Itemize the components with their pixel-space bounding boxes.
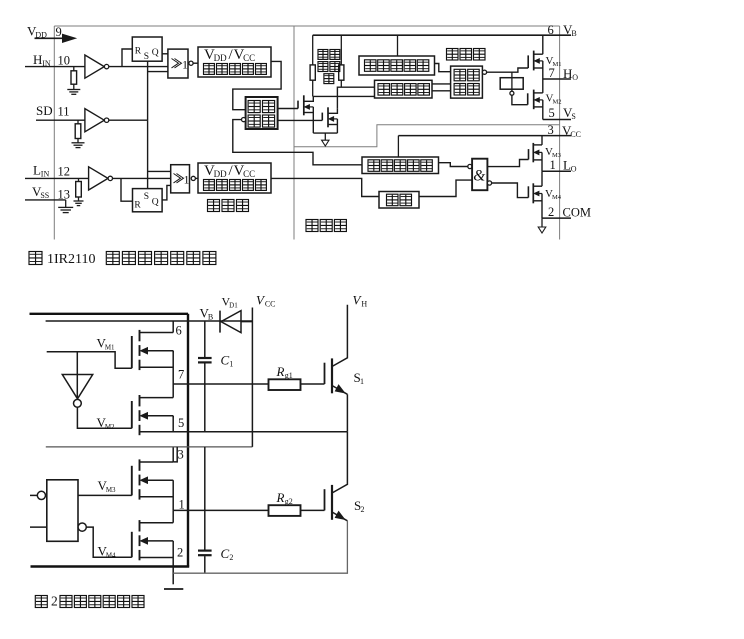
MOSFET VM1 channel [533, 51, 535, 71]
svg-text:1: 1 [229, 360, 233, 369]
G3 ampersand label [473, 168, 485, 185]
MOSFET VM4 gate bar [527, 186, 529, 197]
wire VS/pin5 net [140, 431, 348, 433]
wire FF2 Q output to OR gate G2 [162, 185, 171, 200]
wire LO rail [542, 170, 571, 172]
diode VD1 [220, 311, 252, 333]
RG1 output bubble [510, 91, 514, 95]
FF2 Q label [152, 198, 159, 208]
U5 output bubble [78, 523, 86, 531]
svg-text:H: H [563, 66, 572, 81]
resistor on HIN input [71, 71, 77, 84]
totem MOSFET QT1 substrate arrow [305, 105, 314, 110]
pin 3 VCC label [562, 123, 581, 139]
FF1 Q label [152, 48, 159, 58]
inverter U2 on SD [85, 109, 109, 132]
MOSFET Q2 (VM2 switch) drain arm [140, 397, 174, 399]
pin 2 number [548, 205, 554, 219]
MOSFET VM4 channel [532, 183, 534, 203]
VM2 label (fig2) [97, 415, 116, 431]
MOSFET Q2 (VM2 switch) substrate arrow [141, 413, 174, 419]
capacitor C2 bottom lead [204, 556, 206, 573]
wire LS2 output to delay box [271, 178, 379, 196]
MOSFET VM2 gate bar [527, 93, 529, 104]
svg-text:O: O [571, 165, 577, 174]
inverter U3 on LIN [89, 167, 113, 190]
VD1 label [222, 295, 239, 310]
LL1 label (luo ji feng suo) [454, 69, 479, 95]
wire Q4 (VM4 switch) drain [172, 510, 174, 522]
MOSFET Q4 (VM4 switch) source arm [140, 557, 174, 559]
wire through RG1 [511, 72, 513, 91]
IGBT S1 emitter [332, 385, 347, 394]
figure 1 IC outline top border [54, 25, 559, 27]
wire VCC supply vertical [251, 308, 253, 447]
wire Q3 source to pin1 node [172, 480, 174, 510]
pin 9 number [56, 25, 62, 39]
svg-text:Q: Q [152, 48, 159, 58]
MOSFET VM1 gate bar [527, 55, 529, 68]
svg-text:1: 1 [184, 173, 190, 187]
MOSFET Q1 (VM1 switch) source arm [140, 366, 174, 368]
PF1 label (mai chong lv bo) [378, 84, 429, 96]
pin 6 number (fig2) [176, 324, 182, 338]
wire S1 emitter to VS node [346, 394, 348, 431]
pin 10 number [58, 54, 71, 68]
svg-text:1IR2110: 1IR2110 [47, 252, 95, 267]
wire VCC/pin3 net [46, 446, 253, 448]
wire Q4 source to COM/ground [172, 541, 174, 584]
IGBT S1 collector [332, 305, 347, 367]
wire LIN input [25, 177, 89, 179]
DL1 label (yan shi) [387, 194, 412, 206]
pin 12 number [58, 165, 71, 179]
wire VM2 source to VS rail [542, 100, 544, 120]
wire VB net [46, 320, 253, 322]
svg-text:1: 1 [360, 377, 364, 386]
wire U5 output B to VM4 gate [86, 527, 132, 557]
pin 6 VB label [563, 22, 577, 38]
MOSFET VM4 substrate arrow [534, 191, 542, 196]
figure 1 upper/lower channel boundary [294, 125, 560, 147]
undervoltage detector box UV1 (upper) [359, 56, 435, 75]
svg-text:1: 1 [182, 58, 188, 72]
pin 12 LIN label [33, 163, 49, 179]
MOSFET Q1 (VM1 switch) gate bar [131, 336, 133, 368]
wire HO rail [543, 78, 571, 80]
NAND gate U5 input wire B [30, 526, 47, 528]
svg-text:6: 6 [548, 23, 554, 37]
pin 3 number (fig2) [178, 448, 184, 462]
wire Q3 (VM3 switch) drain [172, 447, 174, 462]
level shifter box LS2 (VDD/VCC) [198, 163, 271, 193]
NAND gate U5 input wire A [30, 494, 37, 496]
svg-text:g2: g2 [285, 497, 293, 506]
wire R input tap of lower RS latch [121, 178, 133, 201]
RS latch FF2 (lower) [133, 189, 163, 212]
wire G2 output to level shifter LS2 [195, 177, 198, 179]
IGBT S1 body bar [331, 358, 333, 393]
totem MOSFET QT2 source arm [328, 124, 337, 126]
AND gate G3 input bubble [468, 164, 472, 168]
svg-text:COM: COM [563, 206, 591, 220]
svg-text:2: 2 [229, 553, 233, 562]
wire SD input [36, 119, 85, 121]
wire LO/pin1 net [173, 509, 268, 511]
MOSFET VM2 channel [533, 90, 535, 110]
wire inverter U3 output [113, 177, 171, 179]
svg-text:M1: M1 [105, 344, 115, 352]
figure 1 IC outline left pin boundary [53, 26, 55, 240]
VM4 label [545, 188, 562, 201]
wire inverter U1 output [109, 66, 168, 68]
wire PF1 output 2 to logic latch [432, 90, 451, 92]
wire PA1 feedback to lower undervoltage detector [233, 120, 362, 165]
G2 output bubble [191, 176, 195, 180]
IGBT S2 emitter [332, 512, 347, 521]
VDD supply arrow [35, 34, 76, 42]
totem MOSFET QT2 gate bar [321, 113, 323, 121]
MOSFET VM2 source arm [534, 106, 543, 108]
MOSFET Q4 (VM4 switch) drain arm [140, 522, 174, 524]
wire FF1 Q output to OR gate G1 [162, 53, 168, 55]
wire UV2 top tap to VCC rail [397, 136, 399, 157]
resistor on SD input lead [77, 120, 79, 124]
svg-text:11: 11 [58, 105, 70, 119]
wire UV1 output to logic latch [435, 64, 451, 72]
wire R input tap of upper RS latch [122, 49, 132, 67]
ground on VSS pin [58, 200, 73, 213]
pin 3 stub to Q3 drain [173, 447, 177, 462]
svg-text:SD: SD [36, 103, 53, 118]
G3 inverted output bubble [487, 181, 491, 185]
MOSFET VM4 drain arm [534, 185, 543, 187]
MOSFET VM3 substrate arrow [534, 150, 542, 155]
inverter U4 (drives VM2) [62, 375, 92, 399]
svg-text:M2: M2 [105, 423, 115, 431]
totem MOSFET QT1 channel [303, 95, 305, 115]
MOSFET Q4 (VM4 switch) channel [139, 520, 141, 560]
wire PA1 upper output to totem gate [278, 108, 298, 110]
IGBT S2 collector [332, 432, 347, 493]
wire Q2 (VM2 switch) source/substrate [172, 416, 174, 418]
resistor Rg2 [269, 505, 301, 516]
svg-text:3: 3 [548, 123, 554, 137]
MOSFET VM3 source arm [534, 159, 543, 161]
svg-text:CC: CC [243, 169, 255, 179]
svg-text:g1: g1 [285, 371, 293, 380]
wire PF1 output 1 to logic latch [432, 83, 451, 85]
svg-text:R: R [135, 47, 142, 57]
level shifter box LS1 (VDD/VCC) [198, 47, 271, 77]
wire LS1 output to pulse amplifier [233, 61, 281, 109]
MOSFET Q4 (VM4 switch) gate bar [131, 532, 133, 558]
AND gate G3 (&) [472, 159, 487, 191]
inverter U1 on HIN [85, 55, 109, 78]
VM4 label (fig2) [98, 544, 117, 560]
pin 11 SD label [36, 103, 53, 118]
pin 13 number [58, 188, 71, 202]
LS2 label line1 VDD/VCC [204, 163, 255, 179]
Rg1 label [276, 364, 293, 380]
VM1 label [546, 55, 562, 68]
totem MOSFET QT2 drain arm [328, 108, 337, 113]
VB label (fig2) [200, 306, 214, 322]
wire Q2 (VM2 switch) drain [172, 384, 174, 398]
svg-text:H: H [361, 300, 367, 309]
totem pair arrow to substrate rail [322, 133, 329, 146]
wire VB rail [313, 34, 571, 36]
wire VS rail [543, 119, 571, 121]
pulse amplifier box PA1 [246, 97, 278, 129]
wire SD bus branch to lower OR gate [148, 170, 171, 172]
lower channel label (xia tong dao) [306, 220, 346, 232]
wire inverter U2 output to SD node [109, 119, 148, 121]
pin 11 number [58, 105, 70, 119]
wire VM4 source to COM rail [541, 194, 543, 219]
pin 7 HO label [563, 66, 578, 82]
U4 output bubble [74, 399, 82, 407]
pin 10 HIN label [33, 52, 51, 68]
MOSFET VM1 substrate arrow [534, 59, 542, 64]
wire G1 output to level shifter [193, 62, 198, 64]
svg-text:C: C [221, 353, 230, 368]
wire DL1 output to AND gate [419, 180, 472, 196]
pin 3 number [548, 123, 554, 137]
pin 9 VDD label [27, 24, 47, 40]
arrow below VM4 to substrate [538, 218, 546, 233]
svg-text:CC: CC [265, 300, 276, 309]
svg-text:3: 3 [178, 448, 184, 462]
pin 6 number [548, 23, 554, 37]
wire Q1 source to pin7 node [172, 351, 174, 384]
wire UV2 output to AND gate [439, 163, 468, 167]
wire Rg2 to S2 gate [301, 509, 325, 511]
MOSFET Q1 (VM1 switch) channel [139, 330, 141, 370]
FF2 R label [134, 201, 141, 211]
wire HIN input [25, 66, 85, 68]
svg-text:M4: M4 [552, 194, 562, 201]
wire Q1 (VM1 switch) drain [172, 321, 174, 333]
pin 13 VSS label [32, 184, 49, 200]
svg-text:B: B [208, 313, 213, 322]
figure 1 caption [29, 252, 216, 268]
OR gate G1 (upper, >=1) [168, 49, 188, 78]
IGBT S1 gate bar [324, 363, 326, 384]
MOSFET VM4 source arm [534, 200, 543, 202]
svg-text:S: S [144, 52, 149, 62]
logic latch box LL1 [451, 66, 483, 98]
svg-text:Q: Q [152, 198, 159, 208]
pin 2 COM label [563, 206, 591, 220]
capacitor C2 top lead [204, 447, 206, 550]
wire HO/pin7 net [173, 383, 268, 385]
C1 label [221, 353, 234, 369]
pulse filter box PF1 [375, 80, 433, 98]
wire VM1 drain to VB rail [542, 35, 544, 54]
FF1 S label [144, 52, 149, 62]
wire U5 output A to VM3 gate [78, 494, 132, 496]
svg-text:DD: DD [214, 169, 227, 179]
FF2 S label [144, 192, 149, 202]
wire Q2 substrate to VS [172, 416, 174, 432]
svg-text:B: B [571, 29, 576, 38]
MOSFET VM3 drain arm [534, 144, 543, 146]
wire SD vertical bus to lower latch S input [147, 120, 149, 188]
G2 gate symbol [174, 173, 190, 187]
wire COM rail [542, 217, 571, 219]
MOSFET Q2 (VM2 switch) source arm [140, 431, 174, 433]
svg-text:10: 10 [58, 54, 71, 68]
wire Q1 (VM1 switch) source/substrate [172, 351, 174, 353]
pin 1 number [550, 158, 556, 172]
svg-text:9: 9 [56, 25, 62, 39]
totem MOSFET QT2 channel [327, 107, 329, 127]
ground symbol below pin 2 [164, 588, 183, 590]
wire VM1 gate net [47, 352, 132, 369]
wire RB1 bottom to QT1 drain [312, 80, 315, 96]
pin 5 number (fig2) [178, 416, 184, 430]
ground below HIN resistor [67, 84, 80, 94]
wire VCC rail [398, 135, 571, 137]
delay box DL1 [379, 192, 419, 209]
IGBT S2 gate bar [324, 489, 326, 510]
wire Q4 (VM4 switch) source/substrate [172, 540, 174, 542]
pin 1 number (fig2) [179, 498, 185, 512]
wire PA1 lower output to totem gate [278, 119, 323, 121]
totem MOSFET QT1 drain arm [304, 96, 313, 101]
LS2 label line2 (level translator) [204, 180, 267, 191]
svg-text:R: R [276, 364, 285, 379]
U5 input bubble [37, 491, 45, 499]
svg-text:CC: CC [243, 53, 255, 63]
wire QT2 drain to pulse filter [337, 87, 374, 108]
S2 label [354, 498, 365, 514]
figure 1 input/output section divider [293, 26, 295, 240]
resistor on HIN input lead [73, 67, 75, 71]
svg-text:S: S [144, 192, 149, 202]
figure 2 IC box bottom edge [31, 565, 190, 567]
wire RB2 bottom to QT2 drain [340, 80, 342, 87]
figure 2 IC box top edge [30, 313, 189, 315]
figure 2 caption [35, 594, 144, 609]
capacitor C1 bottom lead [204, 363, 206, 431]
G1 output bubble [189, 61, 193, 65]
IGBT S2 body bar [331, 485, 333, 520]
input stage label (shu ru ji) [208, 200, 249, 212]
MOSFET Q3 (VM3 switch) substrate arrow [141, 477, 174, 483]
MOSFET VM1 source arm [534, 67, 543, 69]
MOSFET Q2 (VM2 switch) channel [139, 395, 141, 435]
svg-text:D1: D1 [229, 302, 238, 310]
svg-text:R: R [276, 490, 285, 505]
wire QT1 drain to pulse filter [313, 95, 374, 97]
wire LL1 output to VM1 gate [487, 68, 529, 72]
totem MOSFET QT1 gate bar [297, 101, 299, 109]
pin 2 number (fig2) [177, 546, 183, 560]
wire VM1 source to HO rail [542, 61, 544, 79]
svg-text:DD: DD [214, 53, 227, 63]
UV2 label (qian dian ya jian ce) [368, 160, 432, 172]
svg-text:2: 2 [548, 205, 554, 219]
totem MOSFET QT2 substrate arrow [329, 117, 338, 122]
Rg2 label [276, 490, 293, 506]
wire VM3 drain to VCC rail [541, 136, 543, 145]
pin 7 number (fig2) [178, 368, 184, 382]
LL1 output bubble [482, 70, 486, 74]
resistor on LIN input [76, 182, 82, 198]
svg-text:1: 1 [550, 158, 556, 172]
VM1 label (fig2) [97, 336, 116, 352]
S1 label [354, 370, 365, 386]
MOSFET VM2 drain arm [534, 92, 543, 94]
VM3 label [545, 146, 561, 159]
pin 5 VS label [563, 105, 576, 121]
LS1 label line1 VDD/VCC [204, 47, 255, 63]
svg-text:C: C [221, 546, 230, 561]
UV1 label (qian dian ya jian ce) [365, 60, 429, 72]
wire VM2 drain to HO rail [542, 79, 544, 93]
svg-text:L: L [33, 163, 41, 178]
svg-text:5: 5 [178, 416, 184, 430]
MOSFET Q3 (VM3 switch) source arm [140, 496, 174, 498]
svg-text:5: 5 [549, 106, 555, 120]
MOSFET Q1 (VM1 switch) substrate arrow [141, 348, 174, 354]
svg-text:2: 2 [51, 594, 58, 609]
svg-text:R: R [134, 201, 141, 211]
VM2 label [546, 93, 562, 106]
svg-text:2: 2 [177, 546, 183, 560]
MOSFET VM3 channel [532, 143, 534, 162]
svg-text:M2: M2 [553, 99, 562, 106]
totem MOSFET QT1 source arm [304, 112, 313, 114]
G1 gate symbol [172, 58, 189, 72]
ground below SD resistor [72, 139, 85, 148]
svg-text:6: 6 [176, 324, 182, 338]
FF1 R label [135, 47, 142, 57]
MOSFET Q4 (VM4 switch) substrate arrow [141, 538, 174, 544]
wire Rg1 to S1 gate [301, 383, 325, 385]
pin 5 number [549, 106, 555, 120]
NAND gate U5 body [47, 480, 78, 542]
wire UV1 top tap to VB rail [397, 35, 399, 56]
svg-text:1: 1 [179, 498, 185, 512]
svg-text:CC: CC [570, 130, 581, 139]
VH supply label [353, 293, 368, 309]
PA1 label (pulse amplify) [248, 101, 275, 128]
wire QT1 source down to common bar [312, 107, 314, 133]
svg-text:M3: M3 [106, 486, 116, 494]
resistor RB1 top lead [312, 35, 314, 65]
resistor RB2 (right bootstrap) [339, 65, 344, 80]
svg-text:7: 7 [178, 368, 184, 382]
wire U4 output to VM2 gate [77, 407, 131, 428]
LS1 label line2 (level translator) [204, 64, 267, 75]
figure 1 IC outline right pin boundary [559, 26, 561, 240]
svg-text:H: H [33, 52, 42, 67]
wire G3 inverted output to VM4 gate [492, 183, 529, 198]
MOSFET Q3 (VM3 switch) drain arm [140, 461, 174, 463]
pin 1 LO label [563, 158, 577, 174]
pin 7 number [549, 66, 555, 80]
capacitor C2 [198, 551, 212, 556]
resistor Rg1 [269, 379, 301, 390]
MOSFET Q3 (VM3 switch) channel [139, 459, 141, 499]
wire VSS input [25, 199, 66, 201]
wire VM3 source to LO rail [541, 152, 543, 171]
wire SD bus branch to upper OR gate [148, 71, 168, 73]
high-side level shift label (gao dian ping zhuan huan) [318, 50, 340, 84]
